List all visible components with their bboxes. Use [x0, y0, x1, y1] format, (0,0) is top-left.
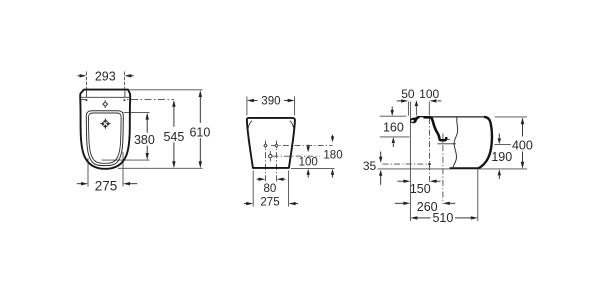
- svg-text:100: 100: [419, 87, 439, 101]
- svg-text:35: 35: [363, 159, 377, 173]
- svg-text:510: 510: [432, 211, 453, 225]
- svg-text:150: 150: [410, 182, 431, 196]
- svg-text:190: 190: [491, 150, 512, 164]
- svg-text:380: 380: [134, 133, 155, 147]
- svg-text:545: 545: [163, 130, 184, 144]
- svg-text:293: 293: [95, 69, 116, 83]
- svg-text:100: 100: [299, 156, 318, 168]
- svg-text:610: 610: [189, 125, 210, 139]
- svg-text:400: 400: [512, 139, 533, 153]
- svg-text:275: 275: [95, 178, 118, 193]
- svg-text:160: 160: [383, 120, 404, 134]
- svg-text:180: 180: [323, 150, 342, 162]
- svg-text:390: 390: [261, 95, 280, 107]
- svg-text:80: 80: [264, 183, 277, 195]
- svg-text:50: 50: [401, 87, 415, 101]
- svg-text:275: 275: [260, 197, 279, 209]
